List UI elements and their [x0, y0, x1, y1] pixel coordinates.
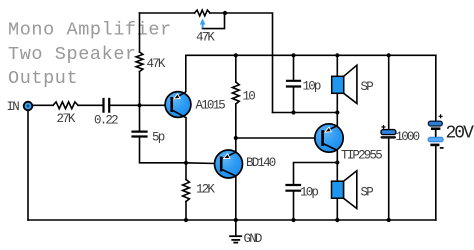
svg-text:SP: SP [361, 186, 374, 200]
wire top rail left segment [140, 12, 195, 14]
svg-text:5p: 5p [152, 131, 165, 145]
node 10p rail junction [291, 53, 295, 57]
wire bottom 10p cap to rail [293, 191, 295, 220]
wire pot wiper to top rail [203, 13, 225, 29]
wire 12K bottom to rail [185, 202, 187, 221]
svg-text:BD140: BD140 [246, 156, 276, 170]
svg-text:1000: 1000 [396, 130, 420, 144]
wire 1000 cap lower stub [388, 139, 390, 220]
svg-text:10: 10 [243, 90, 256, 104]
svg-text:Output: Output [8, 68, 78, 89]
node TIP emitter junction [335, 110, 339, 114]
wire branch to bottom 10p cap [294, 163, 338, 184]
wire 10R bottom to node [235, 104, 237, 138]
node 12K ground junction [184, 218, 188, 222]
svg-text:10p: 10p [303, 80, 321, 94]
svg-text:0.22: 0.22 [94, 114, 118, 128]
node bottom speaker rail junction [335, 218, 339, 222]
node 1000 cap rail junction [387, 218, 391, 222]
wire BD140 collector down to rail [235, 176, 237, 220]
node 1000 rail junction [387, 53, 391, 57]
capacitor C1 0.22 plates [104, 99, 110, 112]
node TIP collector junction [335, 160, 339, 164]
node IN terminal [24, 102, 33, 111]
wire top speaker lower stub [336, 93, 338, 112]
svg-text:TIP2955: TIP2955 [341, 148, 382, 162]
resistor R1 27K [53, 102, 78, 109]
wire bottom speaker to rail [336, 198, 338, 220]
wire IN node down to bottom rail [27, 111, 29, 220]
node speaker rail junction [335, 53, 339, 57]
svg-text:12K: 12K [196, 183, 215, 197]
wire 5p bottom to feedback line [140, 137, 187, 163]
wire base node down to 5p cap [139, 105, 141, 131]
svg-text:47K: 47K [147, 57, 166, 71]
wire A1015 collector down to feedback node [185, 118, 187, 163]
svg-text:27K: 27K [57, 112, 76, 126]
ground symbol [229, 236, 242, 242]
node feedback junction [184, 161, 188, 165]
node pot-rail junction [223, 11, 227, 15]
wire battery bottom riser [435, 146, 437, 220]
wire BD140 emitter up [235, 138, 237, 152]
wire TIP collector to bottom speaker [336, 163, 338, 182]
wire 12K top stub [185, 163, 187, 180]
capacitor C4 10p bottom plates [287, 185, 301, 191]
wire ground stub [235, 220, 237, 235]
svg-text:SP: SP [361, 80, 374, 94]
transistor Q1 A1015 [165, 92, 191, 118]
battery B1 20V [428, 114, 444, 148]
node bottom 10p rail junction [291, 218, 295, 222]
node 10R rail junction [234, 53, 238, 57]
wire 1000 cap upper stub [388, 55, 390, 129]
transistor Q3 TIP2955 [315, 124, 343, 152]
title text [8, 20, 172, 90]
capacitor C3 10p plates [287, 81, 300, 87]
wire 10R top stub from rail [235, 55, 237, 82]
wire 10p top cap lower stub [293, 87, 295, 113]
svg-text:10p: 10p [300, 186, 318, 200]
svg-text:GND: GND [244, 232, 262, 246]
speaker SP top [332, 65, 357, 103]
wire 47K bottom to base node [139, 72, 141, 106]
wire left vertical from top rail to 47K resistor [139, 13, 141, 52]
wire 0.22 cap to A1015 base [109, 104, 171, 106]
speaker SP bottom [332, 171, 357, 209]
wire TIP2955 emitter up [336, 113, 338, 126]
node driver junction [234, 136, 238, 140]
wire +V rail [186, 54, 436, 56]
capacitor C2 5p plates [133, 132, 147, 137]
svg-text:A1015: A1015 [196, 99, 226, 113]
svg-text:20V: 20V [446, 124, 474, 144]
wire 10p top cap upper stub [293, 55, 295, 79]
wire node to TIP2955 base [236, 137, 322, 139]
node mid 10p junction [291, 110, 295, 114]
potentiometer wiper arrow [199, 18, 206, 29]
svg-text:Two Speaker: Two Speaker [8, 44, 137, 65]
node base junction [137, 103, 141, 107]
wire top speaker upper stub [336, 55, 338, 76]
wire battery top riser [435, 55, 437, 121]
potentiometer VR1 47K zigzag [195, 10, 211, 16]
capacitor C5 1000 electrolytic [381, 125, 397, 139]
transistor Q2 BD140 [215, 150, 243, 178]
wire A1015 emitter up to +V rail [185, 55, 187, 91]
wire mid line pot to TIP emitter node [273, 112, 338, 114]
resistor R4 12K [183, 180, 190, 202]
wire BD140 base lead [186, 162, 220, 165]
wire top rail right segment to corner and down [210, 13, 273, 113]
wire bottom rail [28, 219, 436, 221]
svg-text:Mono Amplifier: Mono Amplifier [8, 20, 172, 41]
resistor R2 47K vertical [136, 52, 143, 72]
wire IN to 27K [33, 104, 53, 106]
wire 27K to 0.22 cap [78, 104, 102, 106]
wire TIP2955 collector down [336, 150, 338, 162]
resistor R3 10 [232, 82, 239, 104]
svg-text:IN: IN [7, 100, 20, 114]
svg-text:47K: 47K [196, 31, 215, 45]
node GND rail junction [234, 218, 238, 222]
